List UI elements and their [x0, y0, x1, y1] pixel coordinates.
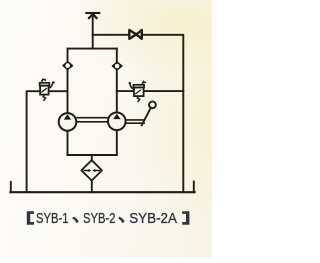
- svg-text:SYB-2A: SYB-2A: [129, 210, 178, 227]
- svg-text:SYB-1: SYB-1: [36, 210, 69, 227]
- svg-text:SYB-2: SYB-2: [83, 210, 116, 227]
